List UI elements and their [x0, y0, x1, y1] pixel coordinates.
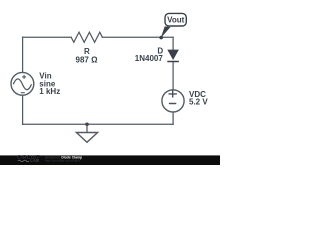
VDC plus sign — [169, 90, 177, 97]
svg-text:Vout: Vout — [167, 16, 185, 25]
sine source circle — [11, 72, 34, 95]
Vout flag tail — [161, 26, 171, 38]
VDC minus sign — [169, 103, 176, 105]
sine source plus sign — [22, 75, 26, 79]
wire top-left horizontal — [23, 36, 72, 38]
svg-text:1N4007: 1N4007 — [135, 54, 164, 63]
wire top-right horizontal — [102, 36, 173, 38]
wire diode to VDC — [172, 62, 174, 90]
resistor R zigzag — [71, 32, 102, 42]
svg-text:R: R — [84, 47, 90, 56]
svg-text:1 kHz: 1 kHz — [39, 87, 60, 96]
svg-text:5.2 V: 5.2 V — [189, 97, 208, 106]
svg-text:987 Ω: 987 Ω — [76, 56, 99, 65]
ground triangle — [76, 133, 97, 143]
diode cathode bar — [167, 61, 179, 63]
ground stem — [86, 124, 88, 132]
sine wave symbol — [13, 79, 31, 90]
voltage source VDC circle — [162, 90, 184, 112]
CircuitLab logo squiggle — [18, 160, 29, 162]
ground junction dot — [85, 123, 89, 127]
wire left vertical upper — [22, 37, 24, 72]
diode D triangle — [167, 50, 179, 60]
sine source minus sign — [21, 92, 25, 94]
svg-text:http://circuitlab.com/c6j84v: http://circuitlab.com/c6j84v — [45, 158, 81, 162]
wire left vertical lower — [22, 95, 24, 124]
watermark bar — [0, 155, 220, 165]
wire bottom horizontal — [23, 123, 174, 125]
wire right vertical to diode — [172, 37, 174, 49]
wire VDC to bottom — [172, 112, 174, 124]
node Vout junction dot — [159, 36, 163, 40]
svg-text:LAB: LAB — [30, 158, 39, 163]
Vout flag balloon — [165, 13, 186, 26]
